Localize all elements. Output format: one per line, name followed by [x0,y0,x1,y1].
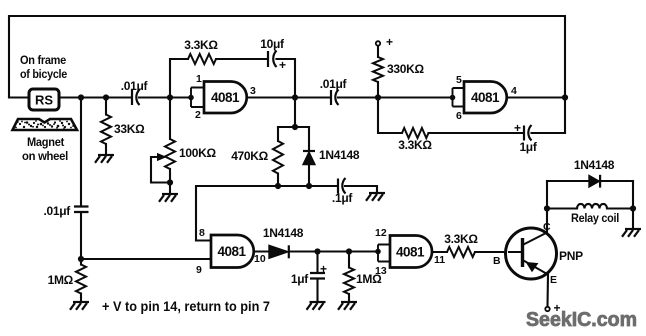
wire 33K top [105,98,107,115]
node 330K bottom [375,94,381,100]
capacitor .1uf plates [338,178,346,194]
wire 1M mid top [348,252,350,268]
wire gate4 output [432,251,447,253]
wire feedback1 up [170,59,188,98]
capacitor .01uf input plates [132,90,140,106]
resistor 33K [101,115,111,145]
wire 330K top stub [377,46,379,57]
svg-text:13: 13 [375,265,387,277]
node gate2 bracket [450,95,456,101]
capacitor 10uf plates [268,51,277,68]
resistor 3.3K feedback2 [402,128,429,138]
resistor 3.3K base [447,247,475,257]
svg-text:1N4148: 1N4148 [319,148,360,162]
wire pin9 long [81,258,211,260]
node relay left [544,205,550,211]
resistor 3.3K feedback1 [188,54,216,64]
wire cap1 to gate1 input bracket [139,96,191,98]
wire 1M mid to ground [348,294,350,302]
wire 1uf bottom stub [316,252,318,273]
svg-text:5: 5 [456,74,462,86]
wire feedback1 mid [216,58,267,60]
svg-text:on wheel: on wheel [22,149,68,163]
gate U1d 4081 body [390,236,432,268]
svg-text:3.3KΩ: 3.3KΩ [398,138,432,152]
svg-text:3: 3 [250,85,256,97]
svg-text:1MΩ: 1MΩ [48,273,74,287]
wire pin8 stub [196,239,211,241]
svg-text:of bicycle: of bicycle [20,67,68,81]
switch RS box [29,89,59,110]
svg-text:4081: 4081 [217,244,246,259]
node RS output [78,94,84,100]
gate U1b 4081 body [464,82,507,114]
wire bottom bracket B [196,186,337,241]
wire collector up [546,181,548,233]
svg-text:Relay coil: Relay coil [571,211,619,225]
transistor Q1 PNP circle [506,228,557,279]
svg-text:B: B [493,255,501,267]
node left junction [78,256,84,262]
wire gate1 output [246,96,331,98]
transistor base bar [521,238,524,267]
magnet speckles [15,120,74,129]
ground below 33K [95,155,114,163]
svg-text:+ V to pin 14, return to pin 7: + V to pin 14, return to pin 7 [102,299,270,314]
ground below 1M mid [338,302,357,310]
wire diode1 stubs [308,127,310,186]
svg-text:10μf: 10μf [260,37,285,51]
svg-text:100KΩ: 100KΩ [179,146,216,160]
wire gate3 output [252,250,269,252]
wire RS output to cap [59,96,131,98]
svg-text:33KΩ: 33KΩ [114,122,145,136]
capacitor .01uf coupling plates [331,90,339,106]
svg-text:E: E [550,274,557,286]
wire feedback2 left [378,98,402,134]
ground below pot [159,194,178,202]
svg-text:Magnet: Magnet [27,135,64,149]
svg-text:4081: 4081 [471,90,500,105]
wire pot top [169,98,171,140]
capacitor .01uf left plates [74,207,89,213]
capacitor 1uf feedback2 plates [524,125,532,141]
resistor 330K [373,57,383,82]
wire 470K stubs [277,127,279,186]
wire 1uf bottom to ground [316,280,318,302]
wire gate2 output to right rail [506,96,565,98]
wire RS left [9,96,29,98]
gate U1c 4081 body [211,235,254,268]
svg-text:+: + [386,35,393,49]
wire pot wiper bracket [151,157,170,183]
svg-text:.01μf: .01μf [320,77,348,91]
wire relay coil line left [547,207,577,209]
node gate2 output [562,94,568,100]
wire feedback1 right down [277,59,296,127]
svg-text:4081: 4081 [396,245,425,260]
wire B right to ground [345,186,377,193]
ground end of bracket B [366,193,385,201]
svg-text:1μf: 1μf [291,272,309,286]
node pot bottom [167,179,173,185]
node gate1 input [167,94,173,100]
transistor emitter diagonal [524,261,549,275]
svg-text:330KΩ: 330KΩ [387,62,424,76]
diode 1N4148 gate3 output [269,245,289,258]
svg-text:1N4148: 1N4148 [574,158,615,172]
svg-text:11: 11 [434,254,445,266]
svg-text:+: + [320,262,327,276]
svg-text:3.3KΩ: 3.3KΩ [184,38,218,52]
wire left vertical upper [80,98,82,207]
svg-text:On frame: On frame [20,53,67,67]
node diode1 bottom [306,183,312,189]
op-amp gate U1a 4081 body [204,82,247,114]
resistor 470K [273,141,283,174]
svg-text:4081: 4081 [211,90,240,105]
relay coil humps [577,204,607,209]
svg-text:12: 12 [375,227,387,239]
diode 1N4148 relay [589,175,600,188]
node 470K bottom [275,183,281,189]
svg-text:470KΩ: 470KΩ [231,149,268,163]
ground below 1M left [70,302,89,310]
wire pot bottom to ground [169,169,171,194]
svg-text:6: 6 [456,110,462,122]
wire relay top left [547,180,589,182]
svg-text:+: + [279,58,286,72]
node relay right [630,205,636,211]
node gate1 output [292,94,298,100]
magnet body [13,119,78,130]
resistor 1M mid [344,268,354,295]
node 1uf timing top [314,248,320,254]
wire feedback2 mid [429,132,524,134]
svg-text:RS: RS [35,93,53,108]
capacitor 1uf timing plates [310,273,325,279]
svg-text:9: 9 [196,264,202,276]
potentiometer 100K resistor [165,139,175,169]
wire relay top right [601,180,634,182]
svg-text:1μf: 1μf [519,140,537,154]
transistor base wire [508,251,521,253]
wire left vertical lower [80,214,82,265]
node 33K tap [103,94,109,100]
ground relay [622,229,641,237]
wire 470K top bracket [278,126,309,128]
node gate1 bracket [188,95,194,101]
node gate4 bracket [375,249,381,255]
potentiometer wiper arrow [158,154,166,161]
svg-text:SeekIC.com: SeekIC.com [526,309,637,331]
wire 1M left to ground [80,294,82,303]
svg-text:.01μf: .01μf [121,79,149,93]
svg-text:.1μf: .1μf [332,191,353,205]
svg-text:.01μf: .01μf [43,204,71,218]
wire relay right vertical [632,181,634,229]
wire top rail [9,16,565,133]
gate U1b input bracket [453,88,465,107]
ground below 1uf timing [307,302,326,310]
terminal +V 330K [376,41,380,45]
svg-text:10: 10 [254,253,266,265]
wire relay coil line right [607,207,633,209]
wire 33K to ground [105,144,107,155]
wire diode2 to gate4 bracket [290,250,379,252]
transistor emitter arrow [527,263,538,272]
svg-text:PNP: PNP [559,249,583,263]
transistor collector diagonal [524,233,548,245]
svg-text:4: 4 [511,85,517,97]
svg-text:1N4148: 1N4148 [263,226,304,240]
svg-text:+: + [514,121,521,135]
node 470K bracket top [292,124,298,130]
svg-text:8: 8 [199,227,205,239]
svg-text:C: C [543,221,551,233]
gate U1d input bracket [378,245,390,262]
svg-text:1: 1 [196,73,202,85]
resistor 1M left [76,265,86,294]
wire cap2 to gate2 input bracket [338,96,453,98]
diode 1N4148 vertical [303,151,315,165]
svg-text:3.3KΩ: 3.3KΩ [444,232,478,246]
wire 330K bottom stub [377,82,379,98]
wire emitter down [546,274,549,306]
gate U1a input bracket [191,88,204,108]
svg-text:2: 2 [195,109,201,121]
wire feedback2 right [532,132,566,134]
wire base resistor to transistor [475,251,521,253]
node 1M mid top [346,248,352,254]
terminal +V emitter [545,307,549,311]
